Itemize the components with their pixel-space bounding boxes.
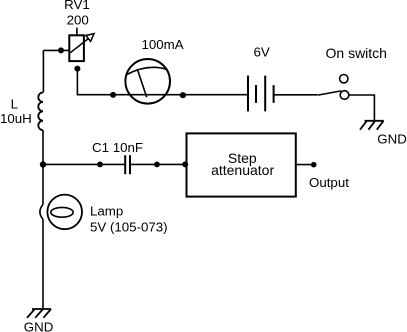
battery B1 <box>248 76 274 112</box>
junction dot RV1 bottom <box>74 66 80 72</box>
wire lamp to ground <box>42 219 44 308</box>
wire node A to lamp <box>42 165 44 205</box>
lamp left bracket arc <box>40 205 43 220</box>
junction dot right of capacitor <box>154 162 160 168</box>
svg-text:6V: 6V <box>254 45 270 60</box>
wire battery to switch <box>274 94 318 96</box>
capacitor C1 <box>125 155 130 174</box>
switch SW1 lower contact <box>340 91 349 100</box>
wire left vertical (RV1 to inductor) <box>42 50 44 92</box>
wire switch to ground <box>349 95 375 121</box>
switch SW1 upper contact <box>340 75 348 83</box>
terminal dot output <box>311 162 317 168</box>
wire capacitor to step attenuator <box>130 163 187 165</box>
svg-text:L: L <box>11 97 18 112</box>
svg-text:GND: GND <box>377 132 407 147</box>
svg-text:RV1: RV1 <box>64 0 90 12</box>
svg-text:GND: GND <box>24 319 54 332</box>
wire node A to capacitor <box>43 163 125 165</box>
switch SW1 lever <box>318 91 341 95</box>
wire through meter to battery <box>125 94 248 96</box>
wire RV1 wiper to main top wire <box>77 69 125 95</box>
ground GND right <box>360 121 384 130</box>
junction dot RV1 left <box>58 47 64 53</box>
potentiometer RV1 <box>69 28 94 62</box>
inductor L <box>38 93 43 131</box>
junction dot node A <box>40 161 46 167</box>
junction dot left of meter <box>110 92 116 98</box>
block U1 step attenuator <box>187 133 296 196</box>
junction dot left of capacitor <box>97 162 103 168</box>
wire RV1 left terminal <box>44 49 70 51</box>
wire inductor to node A <box>42 130 44 164</box>
svg-text:5V (105-073): 5V (105-073) <box>90 220 168 235</box>
svg-text:C1 10nF: C1 10nF <box>92 140 143 155</box>
junction dot at attenuator input <box>182 161 188 167</box>
ground GND bottom left <box>27 309 51 318</box>
meter M1 <box>125 59 170 104</box>
svg-text:attenuator: attenuator <box>211 162 274 178</box>
svg-text:200: 200 <box>67 12 89 27</box>
svg-text:10uH: 10uH <box>0 111 32 126</box>
svg-text:On switch: On switch <box>326 45 387 61</box>
svg-text:Lamp: Lamp <box>90 204 123 219</box>
junction dot right of meter <box>180 92 186 98</box>
wire attenuator output <box>296 164 314 166</box>
lamp bulb <box>47 195 82 230</box>
svg-text:100mA: 100mA <box>142 37 184 52</box>
svg-text:Output: Output <box>309 175 349 190</box>
